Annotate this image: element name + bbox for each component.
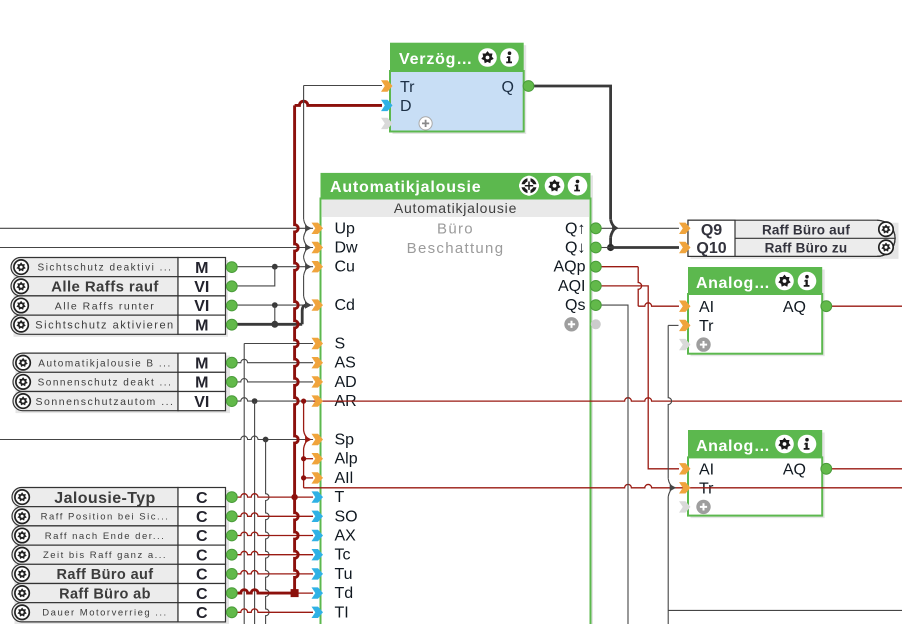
svg-text:TI: TI [335,604,349,621]
wire C6 Raff-Buero-ab thick to trunk junction [237,590,295,593]
connector U4 Tr orange [679,482,691,493]
parameter block C4 Zeit [12,545,178,564]
connector U1 D cyan [381,100,393,111]
svg-text:C: C [196,490,208,507]
wire U2 Q-up output -> Q9 input [601,227,679,229]
wire parameter -> input Tu [237,571,313,574]
wire net-Dw long horizontal from left edge into input Dw [0,247,313,249]
connector input Alp (digital/analog orange) [312,453,324,464]
svg-text:AX: AX [335,528,357,545]
wire I4 Sichtschutz-aktivieren thick [237,323,302,326]
wire U3 AQ -> right edge [832,305,902,307]
icon U1 gear [478,48,497,67]
svg-text:AQp: AQp [553,259,585,276]
input block I6 Sonnenschutz [13,372,178,391]
svg-text:Dauer Motorverrieg ...: Dauer Motorverrieg ... [42,608,167,619]
svg-text:M: M [195,375,208,392]
svg-text:C: C [196,528,208,545]
wire vertical V1 to bottom edge [243,344,245,624]
svg-text:M: M [195,260,208,277]
wire thick riser I4 merge into Cd input [302,305,306,324]
parameter block C6 Raff [12,584,178,603]
svg-text:Q↑: Q↑ [565,220,585,237]
connector input AR (digital/analog orange) [312,395,324,406]
svg-text:Sonnenschutzautom ...: Sonnenschutzautom ... [36,396,175,408]
svg-text:VI: VI [194,298,209,315]
wire riser I2 up to Cu wire [237,267,275,286]
connector input Tl (parameter cyan) [312,607,324,618]
svg-text:Q↓: Q↓ [565,240,585,257]
input block I5 Automatikjalousie B (M) [16,356,231,414]
svg-text:M: M [195,317,208,334]
svg-text:Cd: Cd [335,297,355,314]
svg-text:C: C [196,605,208,622]
wire parameter -> input T [237,494,313,497]
icon Q10 gear [879,240,893,254]
junction dot Cu wire [272,264,278,270]
svg-text:Automatikjalousie B ...: Automatikjalousie B ... [38,358,171,369]
connector U3 ghost input [679,339,691,350]
connector parameter block C5 output green [226,569,237,580]
parameter block C1 Jalousie-Typ [15,490,230,624]
connector parameter block C6 output green [226,588,237,599]
svg-text:Analog…: Analog… [696,275,770,292]
svg-text:VI: VI [194,279,209,296]
junction dot Q10 [607,244,614,251]
svg-text:C: C [196,567,208,584]
svg-text:AQ: AQ [783,299,806,316]
wire net-Up long horizontal from left edge into input Up [0,227,313,229]
svg-text:Dw: Dw [335,240,359,257]
wire parameter -> input Tl [237,609,313,612]
junction dot T wire / trunk [291,494,297,500]
connector parameter block C1 output green [226,492,237,503]
connector input block I5 output green [226,357,237,368]
wire I6 -> input AD [237,379,313,382]
input block I2 Alle [11,277,178,296]
wire tap V4 -> input Alp [304,458,313,460]
svg-text:Raff Büro ab: Raff Büro ab [59,586,151,602]
svg-text:Raff Büro auf: Raff Büro auf [762,222,850,237]
icon U3 plus [696,337,710,351]
wire AQp -> U3 AI [601,266,638,268]
junction dot V4 / AR line [301,399,306,404]
wire vertical V3 to bottom edge with hops [266,440,269,624]
connector input T (parameter cyan) [312,491,324,502]
connector input Cd (digital/analog orange) [312,299,324,310]
connector input block I7 output green [226,396,237,407]
connector input Tc (parameter cyan) [312,549,324,560]
connector U4 AQ output green [821,463,832,474]
svg-text:AS: AS [335,355,356,372]
wire Qs down to bottom edge [601,305,628,624]
connector parameter block C7 output green [226,607,237,618]
wire net-Sp long horizontal from left edge into input Sp [0,436,313,439]
wire tap V4 -> input All [304,477,313,479]
input block I7 Sonnenschutzautom [13,392,178,411]
svg-text:AIl: AIl [335,470,354,487]
svg-text:S: S [335,336,346,353]
icon Q9 gear [879,222,893,236]
svg-text:Td: Td [335,585,354,602]
junction dot net-Sp / V3 [263,437,269,443]
connector parameter block C4 output green [226,549,237,560]
svg-text:Qs: Qs [565,297,585,314]
svg-text:M: M [195,355,208,372]
icon U2 info [568,176,588,196]
junction dot AR wire / V2 [252,398,258,404]
parameter block C5 Raff [12,564,178,583]
icon U1 info [500,48,519,67]
wire riser joining I4 wire to Cd wire [274,305,276,324]
connector U4 AI orange [679,463,691,474]
svg-text:Jalousie-Typ: Jalousie-Typ [54,490,155,507]
connector input AX (parameter cyan) [312,530,324,541]
connector U2 output AQp green [590,261,601,272]
svg-text:Tr: Tr [699,318,714,335]
svg-text:Zeit bis Raff ganz a...: Zeit bis Raff ganz a... [43,550,167,561]
wire thin from trunk junction into input Td [295,592,313,594]
svg-text:Büro: Büro [437,221,474,238]
input block I1 Sichtschutz deaktivi (M) [14,260,229,337]
svg-text:AI: AI [699,461,714,478]
svg-text:C: C [196,586,208,603]
function block U4 Analog memory (lower) [691,433,825,519]
wire vertical V2 to bottom edge [254,401,256,624]
connector input Td (parameter cyan) [312,587,324,598]
connector U3 AQ output green [821,301,832,312]
svg-text:Q: Q [502,79,514,96]
svg-text:Tc: Tc [335,547,351,564]
junction square Td / trunk [291,589,299,597]
wire U1 Tr horizontal [304,85,382,87]
wire D thick red from trunk corner into U1 input D with hop over V303 [295,101,382,105]
connector U2 output Qs green [590,300,601,311]
icon U4 plus [696,500,710,514]
svg-text:Sichtschutz deaktivi ...: Sichtschutz deaktivi ... [38,263,173,274]
svg-text:C: C [196,509,208,526]
input block I3 Alle [11,296,178,315]
connector input SO (parameter cyan) [312,511,324,522]
function block U2 Automatikjalousie [323,175,593,624]
connector U1 ghost input [381,118,393,129]
svg-text:Automatikjalousie: Automatikjalousie [330,179,481,196]
wire net-S elbow from V1 into input S [244,343,313,345]
svg-text:Sonnenschutz deakt ...: Sonnenschutz deakt ... [38,378,173,389]
svg-text:Sp: Sp [335,432,355,449]
svg-text:Verzög…: Verzög… [399,51,473,68]
connector input block I4 output green [226,319,237,330]
svg-text:Tu: Tu [335,566,353,583]
svg-text:Raff Büro zu: Raff Büro zu [765,240,848,255]
wire long red AR line across canvas to right edge [313,398,902,401]
connector input Up (digital/analog orange) [312,223,324,234]
svg-text:Alle Raffs rauf: Alle Raffs rauf [51,279,159,296]
wire gray Tr-net: into U3 Tr, vertical V668, merge into U4 Tr, branch y610, to bottom [668,324,678,326]
icon U3 gear [775,272,794,291]
connector input Cu (digital/analog orange) [312,261,324,272]
connector U2 output Qdown green [590,242,601,253]
wire parameter -> input SO [237,513,313,516]
connector U2 output Qup green [590,223,601,234]
connector parameter block C3 output green [226,530,237,541]
wire red vertical V4 from AR row to long line y487 with taps [303,401,305,430]
svg-text:Sichtschutz aktivieren: Sichtschutz aktivieren [35,320,174,332]
svg-text:T: T [335,489,345,506]
svg-text:Analog…: Analog… [696,438,770,455]
wire U1 Q thick: right, down, merge onto Q9 wire, junction to Q10 [534,86,611,219]
svg-text:AQ: AQ [783,461,806,478]
wire I1 -> input Cu [237,266,313,268]
wire U4 AQ -> right edge [832,468,902,470]
output block Q9 Raff Buero auf [691,223,899,259]
connector input block I6 output green [226,377,237,388]
svg-text:Q10: Q10 [696,240,726,257]
input block I4 Sichtschutz [11,315,178,334]
connector input AS (digital/analog orange) [312,357,324,368]
svg-text:SO: SO [335,508,358,525]
connector input AD (digital/analog orange) [312,376,324,387]
svg-text:AD: AD [335,374,357,391]
wire Tr-distribution vertical V303 with merge arrows into Up,Dw,Cu,Cd [303,86,305,220]
connector U1 Tr orange [381,80,393,91]
connector U1 Q output green [523,81,534,92]
parameter block C7 Dauer [12,603,178,622]
svg-text:Alp: Alp [335,451,358,468]
svg-text:Q9: Q9 [701,222,722,239]
connector input Dw (digital/analog orange) [312,242,324,253]
icon U4 info [798,435,817,454]
connector U3 AI orange [679,301,691,312]
svg-text:Raff Position bei Sic...: Raff Position bei Sic... [41,512,170,523]
connector input Tu (parameter cyan) [312,568,324,579]
connector Q9 input orange [679,223,691,234]
connector U4 ghost input [679,501,691,512]
svg-text:Tr: Tr [699,481,714,498]
svg-text:D: D [400,98,412,115]
connector U2 ghost output [591,319,601,329]
svg-text:Raff Büro auf: Raff Büro auf [56,567,153,583]
wire trunk thick red vertical with hops [295,105,299,593]
wire I3 -> input Cd [237,304,313,306]
svg-text:Raff nach Ende der...: Raff nach Ende der... [45,531,166,542]
wire thick junction -> Q10 input [611,246,679,249]
connector input S (digital/analog orange) [312,338,324,349]
svg-text:Alle Raffs runter: Alle Raffs runter [55,300,156,312]
svg-text:VI: VI [194,394,209,411]
function block U3 Analog memory (upper) [691,270,825,357]
parameter block C3 Raff [12,526,178,545]
connector input block I2 output green [226,281,237,292]
svg-text:AQI: AQI [558,278,586,295]
connector input Sp (digital/analog orange) [312,434,324,445]
connector input block I1 output green [226,262,237,273]
wire parameter -> input AX [237,532,313,535]
connector parameter block C2 output green [226,511,237,522]
wire I5 -> input AS [237,359,313,362]
svg-text:C: C [196,547,208,564]
connector U2 output AQI green [590,281,601,292]
icon U1 plus (add input) [419,117,432,130]
connector Q10 input orange [679,242,691,253]
icon U4 gear [775,435,794,454]
wire AQI -> U4 AI [601,286,679,469]
wire parameter -> input Tc [237,551,313,554]
wire long red line y487 from V4 corner to right edge through U4 Tr [304,484,902,487]
svg-text:Up: Up [335,220,356,237]
icon U2 gear [545,176,565,196]
function block U1 Verzoegerung (delay), selected [393,45,527,134]
icon U2 crosshair [519,176,539,196]
svg-text:Beschattung: Beschattung [407,240,505,257]
wire Tr-net branch y610 -> right edge [668,609,902,611]
junction dot Cd wire [272,302,278,308]
svg-text:Tr: Tr [400,79,415,96]
connector input block I3 output green [226,300,237,311]
wire U2 Q-down output short [601,247,611,249]
svg-text:Cu: Cu [335,259,355,276]
icon U2 plus (add output) [564,317,578,331]
junction dot I4 wire [271,321,278,328]
connector U3 Tr orange [679,320,691,331]
parameter block C2 Raff [12,507,178,526]
svg-text:Automatikjalousie: Automatikjalousie [394,200,517,216]
icon U3 info [798,272,817,291]
svg-text:AI: AI [699,299,714,316]
connector input All (digital/analog orange) [312,472,324,483]
wire I7 -> input AR [237,398,313,401]
